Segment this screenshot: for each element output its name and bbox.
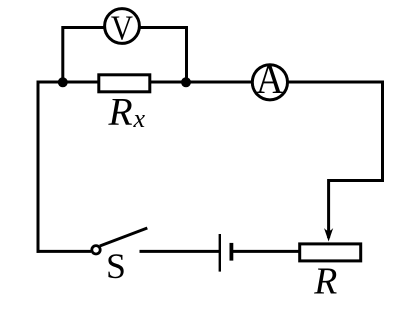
wire: voltmeter parallel loop [63, 28, 187, 83]
wire: battery to rheostat left terminal [233, 250, 300, 253]
svg-text:R: R [313, 261, 337, 303]
wire: bottom left (corner to switch) [37, 250, 92, 253]
battery cell [220, 234, 234, 272]
rheostat R (box) [300, 244, 361, 261]
wire: right vertical from ammeter side [381, 81, 384, 183]
svg-text:R: R [108, 90, 133, 134]
label Rx [108, 90, 146, 134]
svg-text:x: x [133, 104, 146, 133]
node: left junction dot [58, 77, 68, 87]
switch S [92, 228, 148, 254]
wire: top main horizontal [37, 81, 385, 84]
label S [106, 246, 126, 286]
wire: left vertical side [37, 81, 40, 253]
rheostat wiper arrowhead [324, 228, 333, 242]
voltmeter V [105, 9, 140, 49]
svg-text:A: A [256, 55, 284, 102]
wire: switch to battery [140, 250, 220, 253]
wire: horizontal jog above rheostat [329, 179, 385, 182]
label R [313, 261, 337, 303]
wire: rheostat wiper arrow shaft [327, 179, 330, 238]
resistor Rx (box) [99, 75, 150, 92]
svg-text:S: S [106, 246, 126, 286]
node: right junction dot [181, 77, 191, 87]
svg-text:V: V [111, 10, 133, 48]
ammeter A [252, 55, 287, 102]
